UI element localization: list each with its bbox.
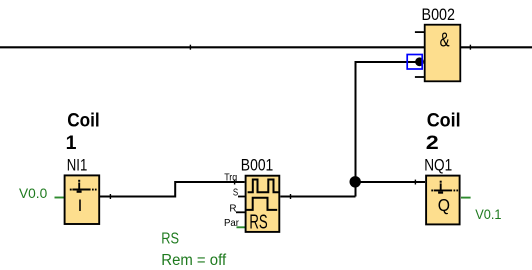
- wire: NI1 output to step corner: [100, 182, 245, 197]
- svg-text:NI1: NI1: [67, 156, 88, 174]
- wire: B001 output to vertical: [280, 196, 355, 198]
- and-gate B002 pin 1 stub: [415, 31, 424, 33]
- node: pin tick on B001 Trg wire: [234, 180, 236, 185]
- wire: B002 output rail right segment: [460, 46, 532, 48]
- input block NI1 switch icon: [70, 180, 97, 193]
- wire: vertical from B001 output row up to B002 input 3: [356, 62, 420, 197]
- flip-flop B001 pulse train icon: [248, 180, 279, 193]
- and-gate B002 pin 4 stub: [415, 76, 424, 78]
- node: pin tick on B001 output wire: [290, 194, 292, 199]
- flip-flop B001 pin R stub: [236, 211, 245, 213]
- svg-text:S: S: [233, 186, 238, 198]
- and-gate B002 body: [425, 25, 461, 82]
- flip-flop B001 pin Par green stub: [237, 226, 246, 228]
- flip-flop B001 single pulse icon: [246, 198, 277, 210]
- flip-flop B001 pin S stub: [238, 196, 245, 198]
- and-gate B002 pin 3 connection dot: [415, 57, 424, 66]
- node: junction dot on vertical wire: [350, 176, 361, 187]
- svg-text:B002: B002: [422, 6, 456, 24]
- node: pin tick on main rail: [189, 45, 191, 50]
- svg-text:&: &: [440, 28, 450, 51]
- svg-text:RS: RS: [249, 211, 267, 233]
- svg-text:V0.1: V0.1: [475, 207, 501, 222]
- svg-text:Coil: Coil: [67, 110, 100, 132]
- svg-text:RS: RS: [161, 230, 179, 247]
- svg-text:Rem = off: Rem = off: [161, 252, 226, 269]
- wire: green output stub from NQ1: [461, 197, 471, 199]
- and-gate B002 pin 3 blue selection marker: [407, 55, 422, 70]
- comment label "Coil 1" for input block NI1: [66, 110, 100, 155]
- svg-text:2: 2: [426, 132, 439, 154]
- svg-text:Coil: Coil: [427, 110, 461, 132]
- svg-text:B001: B001: [241, 156, 273, 174]
- wire: junction to NQ1 input: [356, 181, 426, 183]
- node: pin tick on B002 output: [469, 45, 471, 50]
- svg-text:Q: Q: [438, 195, 450, 215]
- svg-text:1: 1: [66, 132, 77, 154]
- flip-flop B001 body: [246, 176, 280, 232]
- node: pin tick on NQ1 input wire: [414, 180, 416, 185]
- output block NQ1 body: [426, 176, 460, 225]
- wire: main rail left segment: [0, 46, 425, 48]
- output block NQ1 switch icon: [431, 181, 458, 194]
- node: pin tick on NI1 output wire: [109, 194, 111, 199]
- svg-text:NQ1: NQ1: [424, 156, 452, 174]
- svg-text:V0.0: V0.0: [19, 186, 48, 201]
- input block NI1 body: [65, 175, 100, 224]
- wire: green input stub into NI1: [55, 197, 65, 199]
- svg-text:Trg: Trg: [224, 172, 237, 184]
- svg-text:R: R: [229, 203, 237, 215]
- comment label "Coil 2" for output block NQ1: [426, 110, 461, 155]
- svg-text:I: I: [78, 196, 83, 215]
